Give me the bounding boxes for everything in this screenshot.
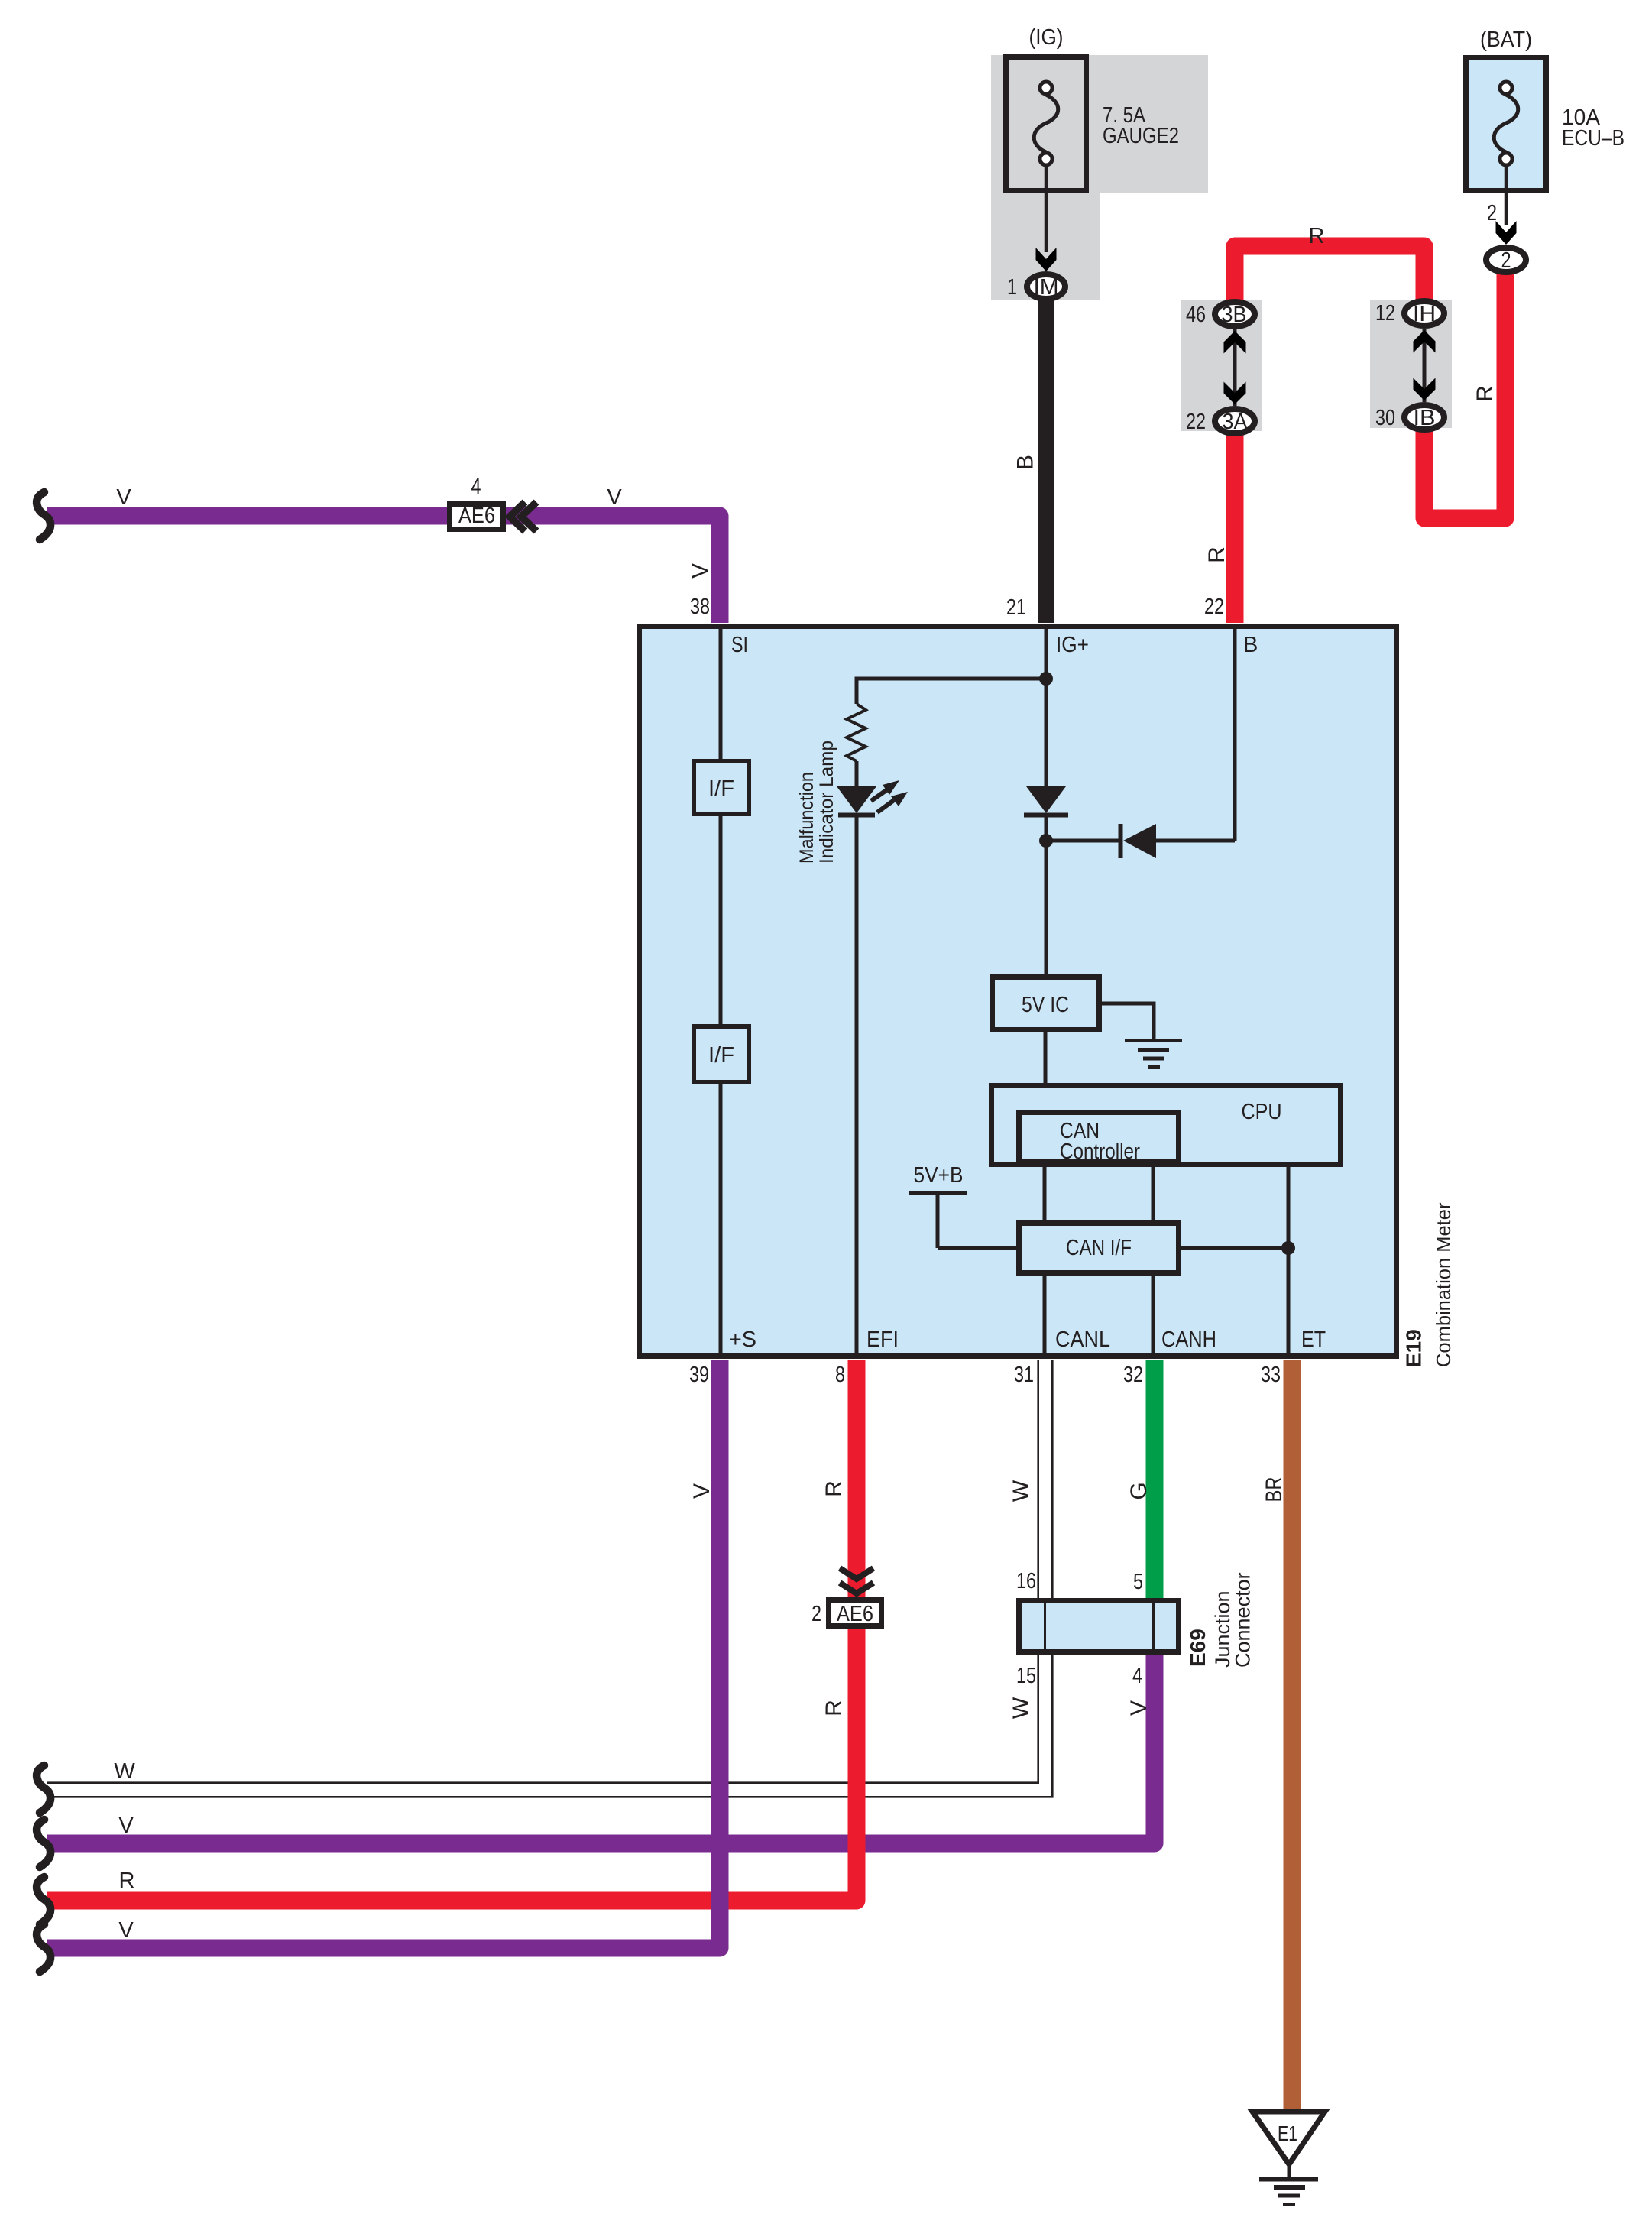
svg-text:R: R bbox=[821, 1480, 847, 1497]
svg-text:B: B bbox=[1243, 633, 1258, 657]
svg-text:V: V bbox=[689, 1483, 714, 1499]
svg-text:CANL: CANL bbox=[1055, 1327, 1110, 1352]
svg-text:4: 4 bbox=[471, 475, 481, 499]
svg-text:IG+: IG+ bbox=[1056, 633, 1089, 657]
svg-text:15: 15 bbox=[1016, 1664, 1036, 1688]
svg-text:R: R bbox=[1309, 224, 1325, 248]
svg-text:B: B bbox=[1013, 455, 1038, 470]
svg-text:G: G bbox=[1126, 1482, 1152, 1499]
svg-text:E69: E69 bbox=[1186, 1629, 1210, 1667]
svg-text:32: 32 bbox=[1123, 1363, 1143, 1387]
svg-text:AE6: AE6 bbox=[458, 504, 495, 528]
svg-text:R: R bbox=[821, 1700, 847, 1716]
svg-text:V: V bbox=[116, 485, 131, 510]
svg-text:ET: ET bbox=[1301, 1327, 1326, 1352]
svg-text:JunctionConnector: JunctionConnector bbox=[1211, 1572, 1255, 1668]
svg-text:IB: IB bbox=[1414, 406, 1436, 430]
svg-text:5V+B: 5V+B bbox=[914, 1163, 964, 1188]
svg-text:2: 2 bbox=[1487, 201, 1497, 225]
svg-text:IH: IH bbox=[1413, 302, 1436, 326]
svg-text:46: 46 bbox=[1186, 303, 1206, 327]
svg-text:31: 31 bbox=[1014, 1363, 1034, 1387]
svg-text:R: R bbox=[119, 1869, 135, 1893]
svg-text:BR: BR bbox=[1262, 1477, 1287, 1502]
svg-text:5V IC: 5V IC bbox=[1022, 993, 1069, 1017]
svg-text:3B: 3B bbox=[1222, 303, 1247, 327]
svg-text:E19: E19 bbox=[1402, 1329, 1426, 1367]
svg-text:Combination Meter: Combination Meter bbox=[1433, 1202, 1455, 1367]
svg-text:R: R bbox=[1472, 385, 1498, 402]
svg-text:EFI: EFI bbox=[866, 1327, 899, 1352]
svg-text:21: 21 bbox=[1006, 595, 1026, 620]
svg-text:22: 22 bbox=[1204, 595, 1224, 619]
svg-text:V: V bbox=[1126, 1700, 1152, 1716]
svg-text:Controller: Controller bbox=[1060, 1139, 1140, 1164]
svg-text:39: 39 bbox=[689, 1363, 709, 1387]
svg-text:38: 38 bbox=[690, 595, 710, 619]
svg-text:CAN I/F: CAN I/F bbox=[1066, 1236, 1132, 1260]
svg-text:+S: +S bbox=[729, 1327, 756, 1352]
svg-text:2: 2 bbox=[1501, 248, 1511, 273]
svg-text:R: R bbox=[1204, 546, 1229, 563]
svg-text:33: 33 bbox=[1261, 1363, 1281, 1387]
svg-text:16: 16 bbox=[1016, 1569, 1036, 1593]
svg-text:W: W bbox=[1009, 1697, 1034, 1719]
svg-text:2: 2 bbox=[811, 1602, 821, 1626]
svg-text:CPU: CPU bbox=[1242, 1100, 1282, 1124]
svg-text:(BAT): (BAT) bbox=[1480, 28, 1532, 52]
svg-text:CANH: CANH bbox=[1161, 1327, 1216, 1352]
svg-text:V: V bbox=[118, 1814, 134, 1838]
svg-text:V: V bbox=[688, 563, 713, 579]
svg-text:E1: E1 bbox=[1278, 2122, 1297, 2145]
svg-text:(IG): (IG) bbox=[1029, 25, 1064, 50]
svg-text:12: 12 bbox=[1375, 301, 1395, 326]
svg-text:V: V bbox=[118, 1918, 134, 1943]
svg-text:SI: SI bbox=[731, 633, 748, 657]
svg-text:V: V bbox=[607, 485, 622, 510]
svg-text:22: 22 bbox=[1186, 410, 1206, 434]
svg-text:30: 30 bbox=[1375, 406, 1395, 430]
svg-text:I/F: I/F bbox=[708, 776, 734, 801]
svg-text:W: W bbox=[1009, 1480, 1034, 1502]
svg-text:5: 5 bbox=[1133, 1570, 1143, 1594]
svg-text:4: 4 bbox=[1132, 1664, 1142, 1688]
svg-text:GAUGE2: GAUGE2 bbox=[1103, 124, 1179, 148]
svg-text:W: W bbox=[114, 1759, 135, 1784]
svg-text:I/F: I/F bbox=[708, 1043, 734, 1068]
svg-text:3A: 3A bbox=[1223, 410, 1249, 434]
svg-text:ECU–B: ECU–B bbox=[1562, 126, 1624, 151]
svg-text:AE6: AE6 bbox=[837, 1602, 873, 1626]
svg-text:1: 1 bbox=[1007, 275, 1017, 300]
svg-text:IM: IM bbox=[1034, 275, 1059, 300]
svg-text:8: 8 bbox=[835, 1363, 845, 1387]
